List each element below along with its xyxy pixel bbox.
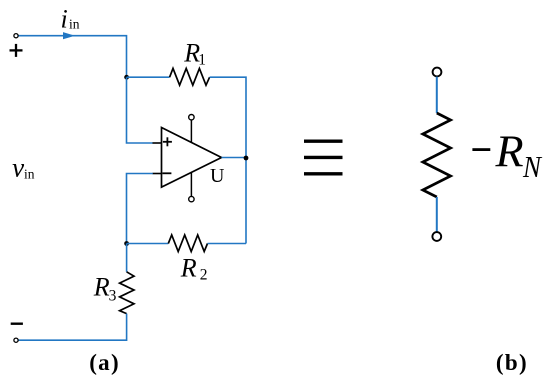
wire: R1 right lead and right rail down	[210, 77, 246, 243]
resistor R2 zigzag	[168, 235, 207, 252]
wire: - input corner down to bottom junction	[127, 174, 153, 244]
wire: R3 bottom lead down and left to bottom terminal	[18, 314, 126, 341]
wire: bottom junction down to R3	[126, 244, 128, 272]
terminal bottom of RN	[432, 232, 441, 241]
svg-text:R: R	[180, 254, 197, 283]
op-amp - input sign	[162, 172, 171, 174]
resistor R3 zigzag (vertical)	[120, 272, 134, 314]
svg-text:(b): (b)	[496, 350, 528, 375]
svg-text:in: in	[24, 166, 35, 181]
svg-text:1: 1	[198, 51, 206, 68]
label R1	[183, 38, 206, 68]
svg-text:v: v	[12, 153, 24, 183]
svg-text:in: in	[69, 16, 80, 31]
node + polarity mark top-left	[10, 44, 23, 57]
svg-text:(a): (a)	[89, 350, 120, 375]
svg-text:2: 2	[200, 267, 208, 284]
svg-text:U: U	[210, 165, 225, 187]
resistor R1 zigzag	[170, 68, 210, 85]
label R3	[93, 273, 117, 305]
svg-text:i: i	[61, 5, 68, 34]
terminal input bottom-left	[14, 338, 18, 342]
node output junction	[244, 156, 249, 161]
wire: R2 right lead	[208, 243, 247, 245]
resistor RN zigzag (vertical)	[423, 113, 451, 197]
equivalence symbol	[304, 141, 343, 174]
node A junction (top, input to R1 and op-amp +)	[124, 75, 129, 80]
terminal top of RN	[433, 68, 442, 77]
wire: op-amp output to right rail	[222, 157, 247, 159]
op-amp input stub -	[153, 173, 162, 175]
node - polarity mark bottom-left	[11, 323, 23, 325]
op-amp bottom power pin	[190, 172, 192, 196]
svg-text:N: N	[522, 150, 542, 184]
op-amp U triangle	[162, 128, 222, 188]
op-amp top power pin	[190, 120, 192, 142]
svg-text:R: R	[495, 126, 524, 177]
op-amp + input sign	[163, 137, 172, 146]
wire: top lead of RN	[436, 77, 438, 113]
label v_in	[12, 153, 35, 183]
label R2	[180, 254, 208, 284]
wire: bottom lead of RN	[436, 197, 438, 232]
terminal input top-left	[14, 34, 18, 38]
wire: R2 left lead	[127, 243, 169, 245]
node bottom junction	[124, 241, 129, 246]
wire: top input wire from terminal to corner	[18, 36, 126, 75]
label i_in	[61, 5, 80, 34]
op-amp input stub +	[153, 142, 162, 144]
wire: junction down to + input corner then right to op-amp	[127, 77, 153, 143]
svg-text:R: R	[93, 273, 110, 302]
svg-text:3: 3	[109, 287, 117, 304]
label -RN	[472, 126, 542, 185]
wire: R1 left lead	[127, 76, 170, 78]
current arrow i_in	[63, 32, 75, 39]
